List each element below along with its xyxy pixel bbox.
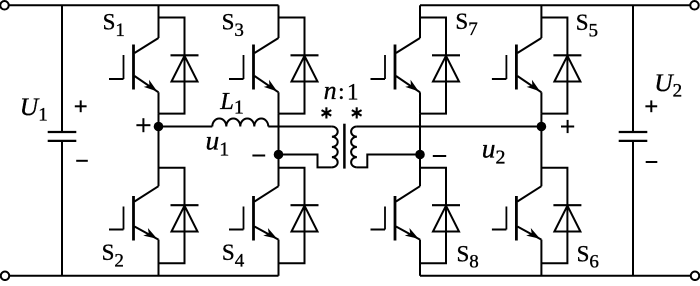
svg-text:1: 1 (347, 80, 359, 105)
svg-text:n: n (324, 76, 337, 105)
svg-text::: : (338, 79, 344, 104)
